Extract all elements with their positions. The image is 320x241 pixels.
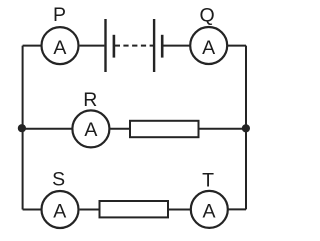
svg-text:S: S [52,169,65,191]
svg-text:A: A [53,200,66,222]
svg-text:A: A [53,37,66,59]
svg-text:A: A [202,37,215,59]
svg-text:T: T [202,169,214,191]
svg-text:R: R [83,89,97,111]
svg-text:A: A [202,200,215,222]
svg-text:P: P [53,4,66,26]
svg-text:Q: Q [200,4,215,26]
svg-text:A: A [84,119,97,141]
